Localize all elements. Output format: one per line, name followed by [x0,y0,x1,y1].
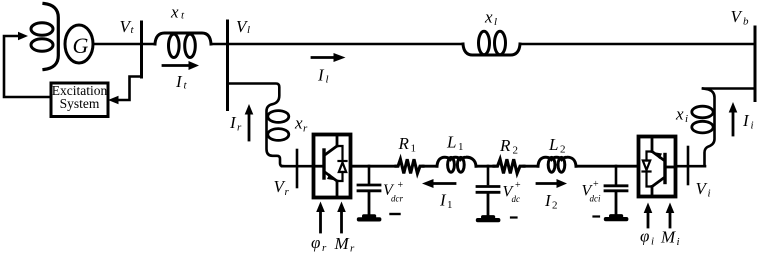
label I_t [175,72,188,92]
svg-text:I: I [439,191,447,210]
svg-text:2: 2 [513,145,519,157]
wire L2 to inverter [576,165,638,168]
label L2 [548,135,566,156]
wire R2 to L2 [524,165,538,168]
control input arrow phi_i [644,203,653,228]
label x_r [294,114,308,135]
node tick Vr [296,150,299,187]
resistor R1 [396,159,423,173]
inductor x_t (transformer reactance) [155,33,211,58]
wire x_r to rectifier [282,165,313,168]
svg-text:dci: dci [590,194,601,204]
wire L1 to R2 [476,165,494,168]
svg-text:x: x [675,105,684,124]
inductor x_l (line reactance) [463,31,520,55]
ground symbol at C_dcr [357,214,382,221]
svg-text:G: G [73,33,89,58]
wire x_i to Vb bus [703,87,755,90]
current arrow I_r [245,104,254,140]
svg-text:r: r [237,122,242,134]
svg-text:System: System [60,96,100,111]
dc capacitor C_dci [605,166,627,216]
excitation system block [51,83,108,117]
svg-text:+: + [593,179,599,190]
node tick Vi [687,147,690,184]
label L1 [446,133,464,154]
label V_dc plus [503,180,522,204]
control input arrow M_i [666,203,675,228]
label Vr [274,177,290,198]
current arrow I_2 [537,179,567,188]
label R1 [398,134,417,155]
label phi_i [640,227,654,248]
label M_r [334,234,356,255]
inverter converter box [639,137,676,197]
label M_i [660,228,680,249]
svg-text:dcr: dcr [391,194,403,204]
svg-text:i: i [651,236,654,248]
dc capacitor C_dcr [358,166,380,216]
label Vi [696,179,711,200]
inductor x_i [692,89,715,167]
current arrow I_t [163,61,199,70]
svg-text:L: L [446,133,456,152]
label I_r [229,113,242,134]
svg-text:r: r [303,123,308,135]
control input arrow M_r [337,202,346,233]
svg-text:I: I [742,111,750,130]
field winding coil of generator [31,4,58,70]
svg-text:I: I [544,191,552,210]
label I_i [742,111,754,132]
main transmission line left segment [211,43,463,46]
wire Vl bus to rectifier transformer [228,84,284,167]
wire from Vt bus to excitation system input [108,77,142,105]
svg-text:l: l [247,24,250,36]
svg-text:t: t [181,10,185,22]
label x_l [484,8,497,29]
label x_i [675,105,688,126]
current arrow I_i [729,102,738,135]
excitation feedback wire to field winding [4,32,51,97]
svg-text:2: 2 [552,200,558,212]
label Vt [120,17,135,36]
inverter IGBT valve [652,138,676,196]
svg-text:I: I [317,66,325,85]
dc link wire rectifier to R1 [351,165,396,168]
wire generator to Vt bus [93,43,155,46]
svg-text:l: l [494,16,497,28]
inverter freewheeling diode [643,152,653,187]
svg-text:x: x [294,114,303,133]
control input arrow phi_r [316,202,325,233]
ground symbol at C_dc [476,215,501,222]
label I_2 [544,191,558,212]
label I_l [317,66,329,86]
svg-text:1: 1 [411,143,417,155]
resistor R2 [494,159,524,173]
ground symbol at C_dci [604,214,629,221]
label Vl [236,17,250,36]
rectifier converter box [314,135,351,198]
svg-text:M: M [334,234,350,253]
svg-text:I: I [229,113,237,132]
svg-text:2: 2 [560,144,566,156]
label I_1 [439,191,453,212]
bus node Vt [140,22,143,77]
label minus at V_dci [594,215,600,217]
svg-text:L: L [548,135,558,154]
current arrow I_l [312,53,346,62]
label phi_r [311,233,327,254]
svg-text:R: R [398,134,410,153]
label V_dci plus [582,179,601,204]
svg-text:x: x [170,3,179,22]
inductor L1 [437,157,476,172]
svg-text:t: t [184,80,188,92]
svg-text:M: M [660,228,676,247]
label minus at V_dcr [391,213,400,215]
svg-text:i: i [751,120,754,132]
label minus at V_dc [511,216,517,218]
main transmission line right segment [520,43,755,46]
label Vb [731,7,750,28]
rectifier freewheeling diode [337,146,347,181]
svg-text:1: 1 [447,199,453,211]
svg-text:1: 1 [458,141,464,153]
svg-text:t: t [131,24,135,36]
label R2 [499,136,518,157]
svg-text:r: r [350,243,355,255]
svg-text:φ: φ [640,227,649,246]
bus node Vl [226,21,229,110]
current arrow I_1 [422,179,455,188]
rectifier IGBT valve [313,136,337,196]
wire R1 to L1 [423,165,437,168]
svg-text:l: l [326,74,329,86]
svg-text:+: + [398,180,404,191]
svg-text:i: i [677,236,680,248]
svg-text:V: V [731,7,744,26]
label V_dcr plus [383,180,404,204]
wire inverter to x_i [676,165,705,168]
svg-text:dc: dc [512,194,521,204]
bus node Vb [754,27,757,101]
svg-text:i: i [685,113,688,125]
svg-text:x: x [484,8,493,27]
label x_t [170,3,185,22]
svg-text:b: b [743,16,749,28]
svg-text:+: + [515,180,521,191]
svg-text:r: r [322,242,327,254]
inductor x_r [268,111,289,141]
svg-text:r: r [285,186,290,198]
dc capacitor C_dc [477,166,499,217]
svg-text:φ: φ [311,233,320,252]
svg-text:R: R [499,136,511,155]
generator G [65,25,93,63]
svg-text:I: I [175,72,183,91]
inductor L2 [538,157,576,172]
svg-text:i: i [708,188,711,200]
